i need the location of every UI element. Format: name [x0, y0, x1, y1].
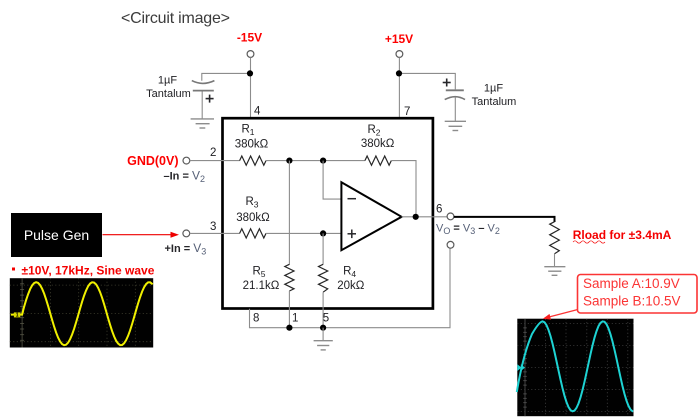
waveform yellow sine — [11, 282, 153, 345]
resistor R2 — [365, 156, 391, 165]
wire -15V junction to cap — [202, 73, 250, 80]
wire C1 to ground — [201, 92, 203, 119]
svg-text:20kΩ: 20kΩ — [337, 280, 365, 292]
junction node C (R4 tap) — [320, 230, 326, 236]
wire R2 to output node — [391, 161, 416, 217]
svg-text:<Circuit image>: <Circuit image> — [121, 10, 230, 27]
wire R4 to pin 5 — [322, 292, 324, 328]
svg-text:+In = V3: +In = V3 — [165, 241, 207, 257]
ground C2 — [445, 121, 466, 130]
wire +15V to pin 7 — [398, 57, 400, 118]
oscilloscope yellow — [10, 278, 153, 347]
junction +15V — [396, 70, 402, 76]
wire node A to R5 — [288, 161, 290, 265]
svg-text:21.1kΩ: 21.1kΩ — [243, 280, 280, 292]
wire +15V junction to cap — [399, 73, 455, 89]
Pulse Gen box — [11, 213, 102, 257]
svg-text:380kΩ: 380kΩ — [235, 139, 269, 151]
svg-text:5: 5 — [323, 313, 329, 325]
svg-text:2: 2 — [210, 147, 216, 159]
junction pin5 rail — [320, 325, 326, 331]
wire Rload to ground — [554, 254, 556, 267]
resistor Rload — [550, 222, 560, 254]
svg-text:Sample A:10.9V: Sample A:10.9V — [583, 276, 680, 291]
svg-text:+15V: +15V — [385, 32, 413, 46]
svg-text:VO = V3 – V2: VO = V3 – V2 — [436, 223, 500, 237]
yellow scope channel marker — [14, 312, 20, 317]
svg-text:-15V: -15V — [237, 31, 262, 45]
resistor R4 — [319, 264, 328, 292]
svg-text:380kΩ: 380kΩ — [361, 138, 395, 150]
wire R5 to pin 1 — [288, 291, 290, 328]
terminal +15V — [396, 51, 403, 58]
svg-text:Tantalum: Tantalum — [146, 88, 191, 100]
terminal GND(0V) pin2 — [183, 157, 190, 164]
svg-text:–In = V2: –In = V2 — [164, 169, 205, 185]
red arrow Pulse Gen to pin3 — [103, 234, 173, 236]
svg-text:4: 4 — [254, 106, 261, 118]
capacitor C2 plus sign — [443, 79, 451, 87]
capacitor C2 straight plate — [446, 89, 464, 91]
cyan scope axis ticks — [523, 319, 527, 417]
svg-text:R5: R5 — [252, 266, 265, 280]
capacitor C2 curved plate — [445, 97, 465, 100]
junction node A (R5 tap) — [286, 158, 292, 164]
svg-text:Sample B:10.5V: Sample B:10.5V — [583, 294, 681, 309]
ground main — [314, 341, 333, 350]
svg-text:Pulse Gen: Pulse Gen — [24, 227, 89, 243]
junction pin1 rail — [286, 325, 292, 331]
ground C1 — [191, 119, 214, 128]
callout leader line — [548, 310, 578, 318]
wire pin3 — [190, 232, 240, 234]
label sine source — [12, 268, 15, 271]
svg-text:3: 3 — [210, 221, 216, 233]
callout Sample box — [578, 275, 698, 314]
Rload wavy underline — [573, 241, 605, 243]
svg-text:8: 8 — [253, 313, 259, 325]
wire minus input — [323, 161, 341, 200]
svg-text:1: 1 — [292, 313, 298, 325]
op-amp plus sign — [348, 230, 357, 239]
svg-text:R3: R3 — [245, 196, 258, 210]
svg-text:7: 7 — [404, 106, 410, 118]
pin 8 stub — [250, 248, 451, 328]
resistor R5 — [285, 264, 294, 291]
svg-text:1µF: 1µF — [158, 75, 177, 87]
svg-text:380kΩ: 380kΩ — [236, 212, 270, 224]
capacitor C1 straight plate — [193, 90, 214, 92]
cyan scope channel marker — [517, 364, 521, 371]
capacitor C1 plus sign — [206, 95, 214, 103]
oscilloscope cyan — [517, 319, 633, 417]
waveform cyan sine — [517, 321, 633, 411]
terminal output reference — [447, 241, 454, 248]
junction output node — [413, 214, 419, 220]
svg-text:GND(0V): GND(0V) — [127, 154, 178, 168]
wire output thick — [454, 217, 555, 222]
terminal -15V — [247, 51, 254, 58]
svg-text:R2: R2 — [367, 124, 380, 138]
wire pin2 — [190, 160, 240, 162]
junction node B (minus input tap) — [320, 158, 326, 164]
svg-text:Rload for ±3.4mA: Rload for ±3.4mA — [573, 228, 672, 242]
callout arrowhead — [543, 314, 551, 320]
svg-text:1: 1 — [16, 313, 19, 319]
resistor R1 — [240, 156, 266, 165]
wire R3 to plus input — [266, 232, 341, 234]
svg-text:±10V, 17kHz, Sine wave: ±10V, 17kHz, Sine wave — [22, 264, 155, 278]
resistor R3 — [240, 229, 266, 238]
svg-text:1µF: 1µF — [484, 83, 503, 95]
yellow scope axis ticks — [20, 278, 24, 347]
svg-text:6: 6 — [436, 204, 442, 216]
op-amp U1 triangle — [341, 182, 401, 250]
svg-text:R1: R1 — [241, 124, 254, 138]
op-amp minus sign — [348, 198, 357, 200]
junction -15V — [247, 70, 253, 76]
terminal output pin6 — [447, 213, 454, 220]
wire node C to R4 — [322, 233, 324, 264]
wire op-amp output — [402, 216, 448, 218]
terminal +In pin3 — [183, 230, 190, 237]
svg-text:Tantalum: Tantalum — [472, 96, 517, 108]
ground Rload — [544, 267, 565, 276]
IC body U1 — [223, 118, 433, 308]
wire R1 to R2 — [266, 160, 365, 162]
capacitor C1 1uF curved plate — [192, 81, 215, 84]
svg-text:R4: R4 — [343, 266, 356, 280]
wire -15V to pin 4 — [250, 57, 252, 118]
wire C2 to ground — [454, 97, 456, 121]
wire rail to ground — [322, 328, 324, 341]
